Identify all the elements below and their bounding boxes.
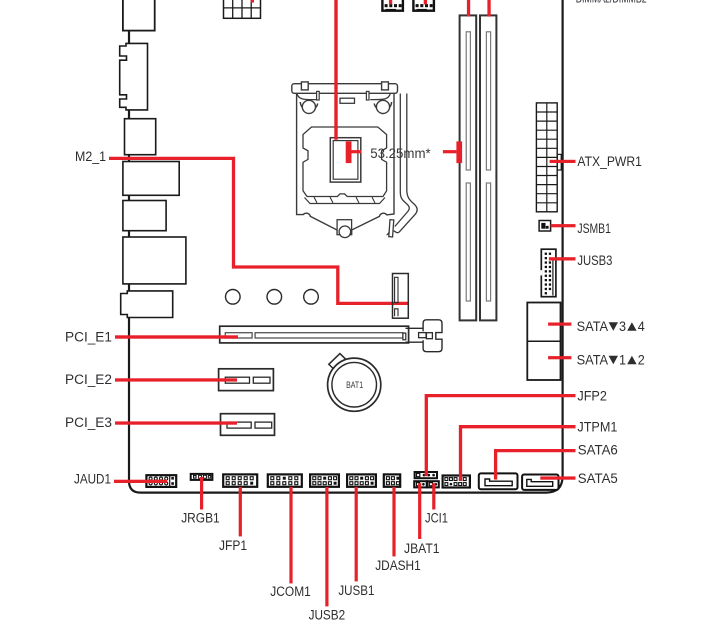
CPU socket screw holder right bbox=[374, 102, 391, 110]
callout line JCOM1 bbox=[289, 487, 292, 584]
callout stub CPU power bbox=[251, 0, 254, 3]
PCI_E1 slot bbox=[220, 326, 409, 343]
PCI_E3 slot bbox=[221, 414, 275, 436]
CPU socket contact strip bbox=[305, 197, 386, 204]
CPU socket top tab left bbox=[301, 82, 308, 90]
callout stub DIMM1 bbox=[467, 0, 470, 17]
DIMM slot 1 bbox=[460, 15, 477, 320]
JCI1 connector bbox=[427, 481, 439, 487]
svg-text:JRGB1: JRGB1 bbox=[181, 511, 220, 527]
callout line SATA5 bbox=[540, 476, 575, 479]
svg-text:JFP2: JFP2 bbox=[577, 388, 607, 404]
rear IO port 2 bbox=[120, 43, 148, 110]
label JCI1 bbox=[425, 511, 448, 527]
svg-text:M2_1: M2_1 bbox=[75, 149, 106, 165]
callout line JDASH1 bbox=[392, 487, 395, 557]
dimension bar left bbox=[346, 141, 352, 163]
svg-text:4: 4 bbox=[638, 319, 645, 335]
callout line JUSB2 bbox=[325, 487, 328, 607]
callout line JSMB1 bbox=[551, 224, 576, 227]
svg-text:ATX_PWR1: ATX_PWR1 bbox=[577, 154, 642, 170]
rear IO port 1 bbox=[123, 0, 155, 31]
label SATA12 bbox=[577, 352, 645, 368]
M2 standoff hole 3 bbox=[304, 290, 319, 305]
CPU socket screw holder left bbox=[300, 102, 317, 110]
PCI_E3 callout line bbox=[115, 421, 237, 424]
svg-text:PCI_E2: PCI_E2 bbox=[65, 372, 112, 388]
svg-text:JSMB1: JSMB1 bbox=[577, 221, 611, 237]
DIMM slot 2 bbox=[480, 15, 496, 320]
svg-text:SATA: SATA bbox=[577, 319, 609, 335]
rear IO port 5 bbox=[123, 201, 166, 231]
label PCI_E3 bbox=[65, 415, 112, 431]
CPU socket load plate bar bbox=[292, 84, 398, 94]
fan header 2 bbox=[413, 0, 434, 11]
rear IO audio port bbox=[121, 291, 173, 318]
JSMB1 connector bbox=[539, 221, 551, 232]
JAUD1 connector bbox=[146, 475, 176, 487]
svg-text:2: 2 bbox=[638, 352, 645, 368]
DIMM label remnant top right bbox=[576, 0, 647, 6]
JUSB3 connector bbox=[540, 249, 555, 297]
callout line JUSB1 bbox=[355, 487, 358, 582]
CPU socket latch curve left bbox=[297, 91, 319, 100]
label JUSB3 bbox=[577, 253, 612, 269]
callout line SATA34 bbox=[548, 323, 571, 326]
rear IO port 3 bbox=[125, 119, 156, 155]
callout line JCI1 bbox=[432, 483, 435, 509]
callout line ATX_PWR1 bbox=[550, 160, 576, 163]
label ATX_PWR1 bbox=[577, 154, 642, 170]
svg-text:JFP1: JFP1 bbox=[219, 538, 247, 554]
M2 standoff hole 1 bbox=[226, 290, 241, 305]
svg-text:SATA: SATA bbox=[577, 352, 609, 368]
JBAT1 connector bbox=[414, 481, 427, 487]
callout line JUSB3 bbox=[549, 257, 576, 260]
M2_1 label bbox=[75, 149, 106, 165]
label JTPM1 bbox=[577, 420, 617, 436]
callout line JBAT1 bbox=[418, 483, 421, 539]
label SATA5 bbox=[578, 471, 618, 487]
svg-text:JBAT1: JBAT1 bbox=[404, 541, 440, 557]
svg-text:JUSB2: JUSB2 bbox=[309, 608, 346, 624]
label SATA6 bbox=[578, 442, 618, 458]
CPU socket screw right bbox=[376, 100, 389, 113]
PCI_E1 callout line bbox=[115, 335, 238, 338]
svg-text:1: 1 bbox=[619, 352, 626, 368]
callout stub DIMM2 bbox=[487, 0, 490, 17]
JFP1 connector bbox=[223, 474, 257, 486]
CPU socket top tab right bbox=[382, 82, 389, 90]
label JAUD1 bbox=[74, 471, 111, 487]
svg-text:PCI_E3: PCI_E3 bbox=[65, 415, 112, 431]
label JFP2 bbox=[577, 388, 607, 404]
callout line JFP2 bbox=[426, 396, 575, 477]
dimension line right bbox=[443, 150, 457, 153]
svg-text:PCI_E1: PCI_E1 bbox=[65, 330, 112, 346]
CPU die rectangle bbox=[330, 138, 361, 182]
ATX_PWR1 connector bbox=[536, 103, 561, 212]
callout line JRGB1 bbox=[200, 477, 203, 510]
svg-text:JUSB1: JUSB1 bbox=[338, 583, 374, 599]
label JSMB1 bbox=[577, 221, 611, 237]
PCI_E2 callout line bbox=[115, 378, 237, 381]
svg-text:DIMMA2/DIMMB2: DIMMA2/DIMMB2 bbox=[576, 0, 647, 6]
battery BAT1 bbox=[328, 358, 381, 411]
CPU socket screw left bbox=[302, 100, 315, 113]
svg-text:JAUD1: JAUD1 bbox=[74, 471, 111, 487]
CPU socket tongue bbox=[340, 98, 355, 103]
SATA12 connector block divider bbox=[527, 340, 560, 342]
label PCI_E1 bbox=[65, 330, 112, 346]
label JBAT1 bbox=[404, 541, 440, 557]
label PCI_E2 bbox=[65, 372, 112, 388]
JCOM1 connector bbox=[268, 474, 302, 486]
callout stub fan 2 bbox=[424, 0, 427, 4]
dimension red line vertical bbox=[334, 0, 337, 140]
svg-text:JCI1: JCI1 bbox=[425, 511, 448, 527]
label SATA34 bbox=[577, 319, 645, 335]
svg-text:3: 3 bbox=[619, 319, 626, 335]
dimension bar right bbox=[456, 141, 462, 163]
JTPM1 connector bbox=[443, 476, 470, 488]
dimension text 53.25mm bbox=[370, 146, 431, 162]
callout line JTPM1 bbox=[461, 427, 576, 481]
callout stub fan 1 bbox=[389, 0, 392, 4]
rear IO port 6 bbox=[123, 237, 186, 284]
svg-text:53.25mm*: 53.25mm* bbox=[370, 146, 431, 162]
label JUSB1 bbox=[338, 583, 374, 599]
callout line JAUD1 bbox=[114, 480, 167, 483]
CPU socket lever arm bbox=[386, 94, 417, 237]
svg-text:JTPM1: JTPM1 bbox=[577, 420, 617, 436]
svg-text:SATA6: SATA6 bbox=[578, 442, 618, 458]
motherboard outline bbox=[129, 0, 563, 493]
CPU socket latch curve right bbox=[366, 91, 390, 100]
callout line SATA6 bbox=[496, 451, 576, 480]
label JDASH1 bbox=[375, 558, 421, 574]
CPU socket chin tab bbox=[337, 220, 352, 238]
SATA34 connector block bbox=[527, 303, 560, 381]
fan header 1 bbox=[382, 0, 403, 11]
JFP2 connector bbox=[415, 472, 437, 478]
dimension line left bbox=[352, 150, 362, 153]
label JRGB1 bbox=[181, 511, 220, 527]
CPU socket body bbox=[297, 94, 394, 234]
svg-text:BAT1: BAT1 bbox=[346, 380, 363, 390]
SATA6 connector bbox=[479, 473, 518, 489]
callout line JFP1 bbox=[239, 487, 242, 537]
label JUSB2 bbox=[309, 608, 346, 624]
PCIe latch bbox=[403, 320, 442, 352]
JUSB2 connector bbox=[310, 474, 339, 486]
M2 slot connector bbox=[393, 274, 409, 319]
M2 standoff hole 2 bbox=[267, 290, 282, 305]
battery holder tab bbox=[329, 354, 351, 375]
JRGB1 connector bbox=[191, 474, 213, 480]
M2_1 callout line bbox=[109, 158, 409, 303]
PCI_E2 slot bbox=[219, 369, 274, 391]
label JFP1 bbox=[219, 538, 247, 554]
svg-text:JDASH1: JDASH1 bbox=[375, 558, 421, 574]
label JCOM1 bbox=[270, 584, 311, 600]
callout line SATA12 bbox=[548, 356, 571, 359]
svg-text:SATA5: SATA5 bbox=[578, 471, 618, 487]
rear IO port 4 bbox=[123, 162, 179, 196]
JDASH1 connector bbox=[384, 474, 400, 486]
svg-text:JUSB3: JUSB3 bbox=[577, 253, 612, 269]
CPU power connector grid bbox=[224, 0, 261, 18]
CPU socket cavity bbox=[303, 127, 387, 197]
JUSB1 connector bbox=[347, 474, 376, 486]
svg-text:JCOM1: JCOM1 bbox=[270, 584, 311, 600]
SATA5 connector bbox=[522, 475, 558, 490]
